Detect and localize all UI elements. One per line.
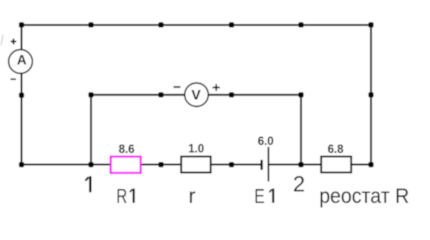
svg-text:A: A (17, 52, 27, 67)
svg-text:2: 2 (293, 172, 305, 197)
svg-text:реостат R: реостат R (319, 185, 409, 208)
svg-text:6.8: 6.8 (328, 144, 345, 156)
svg-text:8.6: 8.6 (119, 144, 135, 156)
svg-text:6.0: 6.0 (258, 136, 274, 148)
svg-text:V: V (191, 86, 201, 102)
svg-text:R: R (116, 186, 127, 208)
svg-text:1.0: 1.0 (188, 144, 204, 156)
svg-text:E: E (254, 186, 264, 208)
svg-text:r: r (189, 185, 196, 208)
